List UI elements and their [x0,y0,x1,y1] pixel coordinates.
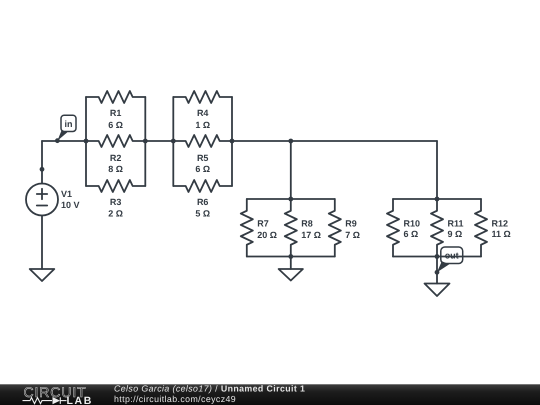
svg-text:R10: R10 [404,218,421,228]
svg-text:R5: R5 [197,153,209,163]
svg-text:8 Ω: 8 Ω [108,164,123,174]
wire drop to bank R10-R12 [436,141,438,199]
junction dot: bank3 bottom [288,254,293,259]
svg-text:2 Ω: 2 Ω [108,208,123,218]
svg-text:1 Ω: 1 Ω [195,120,210,130]
svg-text:R6: R6 [197,197,209,207]
svg-text:11 Ω: 11 Ω [492,229,511,239]
svg-text:in: in [65,119,73,129]
svg-text:R7: R7 [257,218,269,228]
resistor R6 [173,180,232,192]
junction dot: bank1 left [84,139,89,144]
svg-text:17 Ω: 17 Ω [301,230,321,240]
svg-text:9 Ω: 9 Ω [448,229,463,239]
junction dot: main wire to R8 branch [288,139,293,144]
svg-text:6 Ω: 6 Ω [195,164,210,174]
junction dot: bank1 right [143,139,148,144]
junction dot: V1 top lead [40,167,45,172]
bank1 left rail [85,97,87,186]
logo schematic wire-resistor-diode [23,397,67,404]
svg-text:V1: V1 [61,189,72,199]
resistor R10 [387,199,399,257]
ground (below R8) [279,257,303,281]
svg-text:http://circuitlab.com/ceycz49: http://circuitlab.com/ceycz49 [114,394,236,404]
svg-text:R11: R11 [448,218,464,228]
svg-text:out: out [445,250,459,260]
label V1 value [61,189,80,210]
wire drop to bank R7-R9 [290,141,292,199]
bank3 bottom rail [247,256,335,258]
resistor R5 [173,135,232,147]
node flag in [57,115,76,141]
junction dot: in flag node [55,138,60,143]
svg-text:7 Ω: 7 Ω [345,230,360,240]
wire main horizontal from V1 corner to right drop [42,140,437,142]
junction dot: bank2 right [230,139,235,144]
svg-text:R1: R1 [110,108,122,118]
bank4 bottom rail [393,256,481,258]
ground (below R11, out node) [425,257,450,297]
resistor R11 [431,199,443,257]
svg-text:R3: R3 [110,197,122,207]
resistor R3 [86,180,145,192]
svg-text:R8: R8 [301,218,313,228]
svg-text:6 Ω: 6 Ω [404,229,419,239]
svg-text:R12: R12 [492,218,509,228]
wire V1 bottom lead [41,216,43,270]
resistor R1 [86,91,145,103]
svg-text:R2: R2 [110,153,122,163]
resistor R12 [475,199,487,257]
junction dot: out flag node [435,270,440,275]
junction dot: bank2 left [171,139,176,144]
resistor R9 [329,199,341,257]
svg-text:Celso Garcia (celso17) / Unnam: Celso Garcia (celso17) / Unnamed Circuit… [114,384,305,394]
junction dot: bank4 bottom [435,254,440,259]
svg-text:10 V: 10 V [61,200,80,210]
resistor R2 [86,135,145,147]
bank3 top rail [247,198,335,200]
svg-text:5 Ω: 5 Ω [195,208,210,218]
bank2 left rail [172,97,174,186]
svg-text:R9: R9 [345,218,357,228]
svg-text:20 Ω: 20 Ω [257,230,277,240]
resistor R7 [241,199,253,257]
node flag out [437,247,463,272]
ground (below V1) [30,269,55,281]
resistor R4 [173,91,232,103]
wire V1 top lead [41,141,43,184]
junction dot: bank3 top [288,197,293,202]
bank2 right rail [231,97,233,186]
svg-text:LAB: LAB [67,395,93,405]
voltage source V1 [26,184,58,216]
bank1 right rail [144,97,146,186]
resistor R8 [285,199,297,257]
svg-text:R4: R4 [197,108,209,118]
junction dot: bank4 top [435,197,440,202]
svg-text:6 Ω: 6 Ω [108,120,123,130]
bank4 top rail [393,198,481,200]
